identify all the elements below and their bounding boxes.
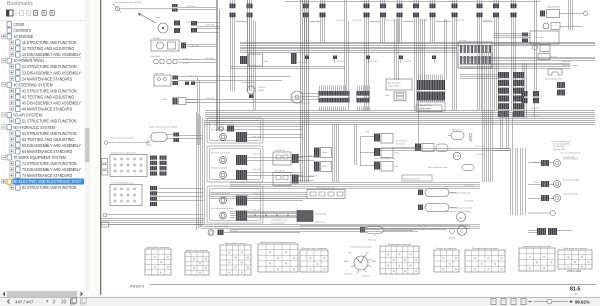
- svg-text:Item (4L-01): Item (4L-01): [275, 170, 285, 173]
- svg-text:Diode: Diode: [162, 99, 168, 101]
- wires engine sensors: [230, 193, 457, 232]
- table wiper switch connection: [220, 242, 251, 275]
- vertical bundle far right: [569, 0, 573, 30]
- diode D4: [240, 54, 268, 66]
- svg-text:Main pump solenoid valve: Main pump solenoid valve: [451, 193, 471, 195]
- svg-text:13 DISASSEMBLY AND ASSEMBLY: 13 DISASSEMBLY AND ASSEMBLY: [22, 52, 81, 57]
- top stack labels: [300, 1, 495, 3]
- wire turn-lamp to bus: [178, 7, 217, 9]
- status last-page arrow: [62, 300, 67, 304]
- wires washer to bus: [186, 45, 216, 47]
- svg-text:41 STRUCTURE AND FUNCTION: 41 STRUCTURE AND FUNCTION: [22, 89, 77, 94]
- svg-text:CN-104 R: CN-104 R: [258, 87, 266, 89]
- dimmer turn signal switch SW2: [110, 155, 147, 177]
- resistor R2: [538, 54, 558, 60]
- svg-text:Washer: Washer: [153, 38, 160, 40]
- relay K2: [366, 132, 393, 144]
- table forward reverse selector: [519, 245, 555, 271]
- svg-text:Push down: Push down: [344, 274, 352, 276]
- connector stack CN5: [364, 0, 370, 110]
- svg-text:23 DISASSEMBLY AND ASSEMBLY: 23 DISASSEMBLY AND ASSEMBLY: [22, 70, 81, 75]
- dimmer switch connector stack CN20: [150, 156, 157, 176]
- svg-text:0.85R 1.25B: 0.85R 1.25B: [252, 169, 261, 171]
- svg-text:0.85R 1.25B: 0.85R 1.25B: [464, 186, 473, 188]
- svg-text:mounting signal): mounting signal): [271, 221, 285, 224]
- svg-text:0.85R 1.25B: 0.85R 1.25B: [533, 162, 542, 164]
- lighter wire and plug: [560, 12, 588, 27]
- svg-text:Turn/tail lamp (LH): Turn/tail lamp (LH): [563, 193, 578, 196]
- svg-text:Warning buzzer: Warning buzzer: [299, 102, 311, 105]
- lamp R.H. head lamp (w/hi/lo): [220, 157, 227, 164]
- wide connector CN33: [417, 80, 445, 101]
- horn relay aux connectors: [185, 82, 195, 86]
- svg-text:21 STRUCTURE AND FUNCTION: 21 STRUCTURE AND FUNCTION: [22, 64, 77, 69]
- wires lamp R.H. front combination lamp: [247, 135, 303, 138]
- wide connector CN32: [357, 91, 370, 103]
- svg-text:64 MAINTENANCE STANDARD: 64 MAINTENANCE STANDARD: [22, 149, 72, 154]
- wires lamp L.H. head lamp (w/hi/lo): [247, 199, 303, 201]
- wires engine stop: [167, 135, 203, 139]
- svg-text:Lighting switch connection: Lighting switch connection: [146, 246, 169, 249]
- svg-text:(6.85) console: (6.85) console: [419, 109, 430, 111]
- svg-text:Auto decelerator: Auto decelerator: [420, 104, 433, 107]
- svg-text:Working lamp (light): Working lamp (light): [211, 166, 227, 169]
- svg-text:200F1-13B4: 200F1-13B4: [567, 269, 582, 273]
- svg-text:73 DISASSEMBLY AND ASSEMBLY: 73 DISASSEMBLY AND ASSEMBLY: [22, 167, 81, 172]
- connector stack CN11: [477, 0, 483, 110]
- svg-text:CN-10: CN-10: [410, 1, 415, 3]
- svg-text:Turn signal switch connection: Turn signal switch connection: [472, 247, 498, 250]
- table starting switch connection: [380, 243, 419, 274]
- svg-text:Foot switch: Foot switch: [299, 61, 308, 64]
- status prev-view icon: [71, 299, 76, 304]
- status dropdown arrow: [46, 301, 49, 303]
- resistor strip R1: [307, 187, 345, 198]
- connector stack CN3: [303, 0, 309, 43]
- rear lamp Turn/tail lamp (RH): [554, 160, 561, 167]
- wires lamp R.H. head lamp (w/hi/lo): [247, 158, 303, 161]
- wiring kit U7: [533, 45, 551, 52]
- svg-text:R.H. head lamp (w/hi/lo): R.H. head lamp (w/hi/lo): [211, 152, 231, 154]
- wire RH turn lamp: [234, 127, 303, 130]
- lamp Working lamp (light): [220, 172, 227, 179]
- svg-text:42 TESTING AND ADJUSTING: 42 TESTING AND ADJUSTING: [22, 95, 75, 100]
- to-valve labels: [374, 140, 408, 160]
- washer unit W1: [151, 38, 179, 51]
- bus left battery: [210, 193, 307, 199]
- lamp connector CN28b: [236, 211, 247, 221]
- connector stack CN37: [557, 82, 565, 96]
- lamp connector CN27: [236, 170, 247, 180]
- wire gauge labels: [186, 6, 542, 233]
- svg-text:Starting switch key position: Starting switch key position: [350, 246, 372, 249]
- svg-text:70 WORK EQUIPMENT SYSTEM: 70 WORK EQUIPMENT SYSTEM: [14, 155, 67, 160]
- svg-text:R.H. front combination lamp: R.H. front combination lamp: [211, 128, 233, 131]
- svg-text:1.25W 0.85B: 1.25W 0.85B: [352, 20, 361, 22]
- wires horn relay: [178, 77, 216, 83]
- svg-text:To: offer detent: To: offer detent: [396, 140, 408, 143]
- wiper connector CN15: [174, 21, 180, 34]
- turn hazard selector switch SW3: [110, 185, 142, 206]
- connector stack CN4: [320, 0, 326, 43]
- vertical bundle left2: [248, 0, 256, 110]
- RH turn lamp connector CN24: [227, 126, 234, 132]
- svg-text:0.85R 1.25B: 0.85R 1.25B: [308, 155, 317, 157]
- diode D3: [314, 162, 332, 172]
- horn H1: [154, 59, 164, 64]
- svg-text:L.H. front combination lamp: L.H. front combination lamp: [211, 207, 233, 210]
- wires right mid verticals: [523, 63, 537, 118]
- foot switch connector: [291, 53, 307, 64]
- svg-text:Horn (low): Horn (low): [151, 56, 161, 58]
- table turn signal switch connection: [465, 247, 505, 272]
- svg-text:Diode: Diode: [395, 153, 399, 155]
- fuse links: [102, 159, 108, 176]
- svg-text:HEAT: HEAT: [344, 260, 348, 263]
- svg-text:Horn switch (steering wheel): Horn switch (steering wheel): [110, 137, 134, 140]
- vertical bundle fusebox: [483, 52, 493, 182]
- horn H2: [167, 59, 177, 64]
- item relay box U1: [273, 149, 291, 165]
- diode D2: [314, 148, 332, 158]
- svg-text:Front windshield wiper relay: Front windshield wiper relay: [374, 157, 395, 160]
- connector stack CN10: [452, 0, 458, 110]
- junction dots: [254, 214, 289, 216]
- turn hazard connector stack CN22: [150, 186, 157, 206]
- svg-text:0.85R 1.25B: 0.85R 1.25B: [336, 20, 345, 22]
- svg-text:GN-104: GN-104: [258, 90, 264, 92]
- svg-text:Tail lamp (10W): Tail lamp (10W): [553, 146, 565, 148]
- svg-text:OFF: OFF: [348, 253, 351, 255]
- svg-text:24 MAINTENANCE STANDARD: 24 MAINTENANCE STANDARD: [22, 76, 72, 81]
- svg-text:Starting motor (with safety re: Starting motor (with safety relay): [446, 210, 471, 213]
- rear lamp connector CN38: [541, 160, 549, 166]
- lamp frame F3: [207, 186, 263, 223]
- vertical bundle mid3: [395, 19, 399, 80]
- svg-text:0.85B: 0.85B: [183, 63, 189, 65]
- LH turn signal lamp E6: [208, 230, 214, 236]
- connector stack CN43: [533, 91, 539, 103]
- cycle label: [271, 219, 287, 225]
- wires lamp L.H. front combination lamp: [247, 213, 303, 217]
- capsule relay: [436, 144, 448, 152]
- svg-text:Diode: Diode: [264, 61, 268, 63]
- svg-text:60 HYDRAULIC SYSTEM: 60 HYDRAULIC SYSTEM: [14, 125, 56, 130]
- svg-text:Forward/reverse selector switc: Forward/reverse selector switch: [523, 245, 551, 248]
- svg-text:Turn/hazard selector switch: Turn/hazard selector switch: [111, 181, 134, 184]
- svg-text:Back-up lamp (23W): Back-up lamp (23W): [563, 180, 580, 182]
- svg-text:0.85R 1.25B: 0.85R 1.25B: [475, 146, 484, 148]
- svg-text:20 POWER TRAIN: 20 POWER TRAIN: [14, 58, 45, 63]
- svg-text:1.25W 0.85B: 1.25W 0.85B: [475, 154, 484, 156]
- table lighting switch connection: [145, 246, 171, 275]
- svg-text:1.25W 0.85B: 1.25W 0.85B: [402, 61, 411, 63]
- wires diode: [186, 100, 198, 103]
- rear combination lamp labels: [551, 140, 570, 151]
- connector stack CN2: [247, 0, 253, 91]
- svg-text:Alternator: Alternator: [449, 237, 457, 240]
- radio U6: [522, 31, 559, 44]
- washer connector CN17: [181, 43, 186, 49]
- svg-text:71 STRUCTURE AND FUNCTION: 71 STRUCTURE AND FUNCTION: [22, 161, 77, 166]
- svg-text:1.25W 0.85B: 1.25W 0.85B: [204, 58, 213, 60]
- svg-text:1.25W 0.85B: 1.25W 0.85B: [205, 25, 214, 27]
- svg-text:(intermittent): (intermittent): [396, 142, 406, 145]
- item relay connector CN29: [292, 154, 299, 163]
- wire rear lamp 1: [528, 162, 554, 164]
- svg-text:81 STRUCTURE AND FUNCTION: 81 STRUCTURE AND FUNCTION: [22, 185, 77, 190]
- bus top horizontal: [240, 43, 595, 53]
- svg-text:Starting switch connection: Starting switch connection: [388, 243, 411, 246]
- connector stack CN12: [493, 0, 499, 110]
- svg-text:74 MAINTENANCE STANDARD: 74 MAINTENANCE STANDARD: [22, 173, 72, 178]
- svg-text:1.25W 0.85B: 1.25W 0.85B: [336, 61, 345, 63]
- vertical bundle stacks down: [501, 112, 513, 148]
- table working braking switch: [258, 241, 298, 272]
- svg-text:Rear lamp (sub switch): Rear lamp (sub switch): [545, 78, 563, 81]
- svg-text:CONTENTS: CONTENTS: [14, 28, 31, 33]
- auto decelerator console label box: [418, 102, 445, 111]
- LH turn lamp connector CN23: [218, 230, 224, 236]
- svg-text:Travel speed sw connection: Travel speed sw connection: [563, 247, 588, 250]
- connector CN36: [415, 144, 434, 152]
- svg-text:Accumulator pressure switch: Accumulator pressure switch: [451, 207, 473, 210]
- svg-text:Battery wire: Battery wire: [316, 221, 326, 224]
- svg-text:1.25W 0.85B: 1.25W 0.85B: [252, 153, 261, 155]
- wires to radio cluster: [494, 34, 540, 45]
- svg-text:Horn relay: Horn relay: [155, 73, 164, 75]
- svg-text:1.25W 0.85B: 1.25W 0.85B: [464, 201, 473, 203]
- auto decelerator label box: [386, 79, 412, 90]
- accumulator label box: [402, 175, 432, 181]
- bus label box: [416, 105, 442, 112]
- RH turn signal lamp E1: [218, 126, 223, 131]
- status layout icon 1: [491, 299, 496, 305]
- svg-text:Accumulator solenoid: Accumulator solenoid: [404, 177, 420, 180]
- wires relay column: [360, 137, 374, 166]
- svg-text:44 MAINTENANCE STANDARD: 44 MAINTENANCE STANDARD: [22, 107, 72, 112]
- svg-text:Grease sw connection: Grease sw connection: [437, 247, 457, 250]
- status zoom-out minus: [529, 301, 532, 303]
- connector CN14: [172, 4, 178, 12]
- fuse box F1: [458, 40, 492, 68]
- svg-text:62 TESTING AND ADJUSTING: 62 TESTING AND ADJUSTING: [22, 137, 75, 142]
- wires rear cluster: [528, 231, 572, 233]
- vertical bundle left: [217, 0, 220, 131]
- auto decelerator relay: [385, 92, 406, 101]
- svg-text:Engine stop protection (for si: Engine stop protection (for signal): [149, 126, 178, 129]
- speaker SP1: [543, 23, 560, 30]
- connector stack CN1: [230, 0, 236, 91]
- horn relay connector CN18: [173, 76, 179, 86]
- engine stop connector CN19: [174, 133, 180, 143]
- svg-text:(multi console): (multi console): [388, 85, 399, 88]
- bus center lower: [230, 183, 480, 189]
- wire rear lamp 2: [528, 184, 554, 186]
- connector stack column CN35: [513, 72, 524, 117]
- lamp connector CN25: [236, 132, 247, 142]
- svg-text:Heater switch connection: Heater switch connection: [186, 249, 208, 252]
- relay K4: [374, 148, 399, 158]
- relay column verticals: [333, 111, 511, 182]
- svg-text:1.25W 0.85B: 1.25W 0.85B: [418, 20, 427, 22]
- svg-text:Turn signal/hazard lamp (RH): Turn signal/hazard lamp (RH): [114, 1, 141, 4]
- oil pressure switch S1: [450, 229, 455, 234]
- wide connector CN31: [319, 91, 350, 103]
- vertical bundle mid4: [421, 19, 425, 80]
- wire LH turn lamp: [224, 232, 300, 234]
- wires wiper to bus: [197, 23, 219, 33]
- svg-text:a-1: a-1: [541, 96, 544, 98]
- relay K5: [374, 162, 399, 172]
- bus bottom center: [300, 226, 470, 229]
- pins wide connectors: [320, 75, 443, 112]
- status layout icon 4: [521, 299, 526, 305]
- status prev-page arrow: [8, 300, 10, 304]
- svg-text:Water temperature sensor: Water temperature sensor: [428, 166, 448, 169]
- svg-text:1.25W 0.85B: 1.25W 0.85B: [533, 182, 542, 184]
- table wiper deicer switch: [300, 247, 328, 272]
- wires horn to bus: [178, 60, 216, 63]
- wires fusebox feeders: [460, 75, 498, 79]
- lamp R.H. front combination lamp: [220, 134, 227, 141]
- svg-text:Fuse box: Fuse box: [459, 40, 466, 42]
- horn switch SW1: [104, 141, 150, 145]
- svg-text:COVER: COVER: [14, 22, 25, 27]
- svg-text:CN5: CN5: [366, 132, 369, 134]
- main pump solenoid V1: [418, 189, 471, 197]
- svg-text:START: START: [371, 260, 376, 263]
- svg-text:1.25W 0.85B: 1.25W 0.85B: [186, 6, 195, 8]
- rear connector cluster CN41: [537, 228, 557, 235]
- vertical bundle mid5: [445, 19, 447, 80]
- rear lamp connector CN39: [541, 181, 549, 187]
- status next-page arrow: [53, 300, 55, 304]
- wire brake switch: [107, 215, 204, 225]
- svg-text:Turn signal flasher: Turn signal flasher: [241, 81, 255, 84]
- svg-text:0.85R 1.25B: 0.85R 1.25B: [418, 226, 427, 228]
- svg-text:Fuel return: Fuel return: [362, 275, 370, 278]
- svg-text:Cigarette lighter: Cigarette lighter: [547, 6, 561, 9]
- table heater switch connection: [185, 249, 209, 275]
- wires battery area: [230, 212, 297, 218]
- accumulator solenoid V2: [418, 204, 473, 212]
- fuel gauge G1: [291, 91, 303, 103]
- turn signal hazard lamp RH: [113, 4, 172, 13]
- svg-text:0.85R 1.25B: 0.85R 1.25B: [455, 20, 464, 22]
- alternator G2: [457, 226, 467, 236]
- top rail wire: [285, 1, 541, 3]
- svg-text:1.25W 0.85B: 1.25W 0.85B: [530, 116, 539, 118]
- diode D1: [162, 98, 186, 105]
- bus right lower: [460, 64, 570, 69]
- bus right upper: [460, 58, 595, 61]
- lamp connector CN28: [236, 196, 247, 206]
- svg-text:Resistor: Resistor: [551, 56, 558, 59]
- fuel level sensor B1: [360, 226, 384, 234]
- table grease switch connection: [434, 247, 459, 272]
- rear lamp small E10: [528, 210, 556, 215]
- svg-text:Tail lamp (10W): Tail lamp (10W): [563, 157, 575, 159]
- svg-text:Diode: Diode: [385, 95, 389, 97]
- rear lamp Back-up lamp (23W): [554, 181, 561, 188]
- wiper motor M1: [158, 23, 168, 33]
- svg-text:80 ELECTRIC AND ELECTRONIC SYS: 80 ELECTRIC AND ELECTRONIC SYST: [14, 179, 82, 184]
- horn relay K1: [154, 73, 171, 86]
- wires lamp Working lamp (light): [247, 173, 303, 176]
- bus middle horizontal: [205, 111, 595, 125]
- connector stack CN13: [511, 0, 517, 110]
- stub connectors under bus: [305, 56, 436, 64]
- washer tank capsule: [451, 129, 472, 141]
- cigarette lighter U5: [540, 10, 560, 18]
- status layout icon 2: [501, 299, 506, 305]
- svg-text:Dimmer and turn signal switch: Dimmer and turn signal switch: [111, 151, 136, 154]
- svg-text:447 / 447: 447 / 447: [15, 299, 34, 304]
- bus middle right: [380, 149, 510, 151]
- horn wire labels: [183, 59, 189, 65]
- svg-text:Turn signal lamp (23W): Turn signal lamp (23W): [553, 144, 570, 146]
- starting motor M2: [457, 213, 466, 222]
- svg-text:0.85R 1.25B: 0.85R 1.25B: [368, 61, 377, 63]
- speaker bracket: [548, 69, 562, 75]
- svg-text:0.85R 1.25B: 0.85R 1.25B: [252, 136, 261, 138]
- svg-text:1.25W 0.85B: 1.25W 0.85B: [205, 98, 214, 100]
- svg-text:(W)casher switch connection: (W)casher switch connection: [301, 247, 327, 250]
- svg-text:61 STRUCTURE AND FUNCTION: 61 STRUCTURE AND FUNCTION: [22, 131, 77, 136]
- fuel tank label: [368, 239, 376, 242]
- status next-view icon: [81, 299, 86, 304]
- vertical bundle center: [301, 0, 309, 182]
- LH rear combination label: [560, 152, 580, 160]
- svg-text:L.H. rear combination lamp: L.H. rear combination lamp: [560, 152, 580, 155]
- svg-text:1.25W 0.85B: 1.25W 0.85B: [252, 193, 261, 195]
- svg-text:10 ENGINE: 10 ENGINE: [14, 34, 34, 39]
- wire loop bottom bundle: [197, 225, 481, 229]
- svg-text:0.85R 1.25B: 0.85R 1.25B: [190, 45, 199, 47]
- bus wrap-down corner: [197, 112, 205, 230]
- connector stack CN9: [430, 0, 436, 43]
- svg-text:40 STEERING SYSTEM: 40 STEERING SYSTEM: [14, 82, 53, 87]
- svg-text:Fuel tank: Fuel tank: [368, 239, 376, 242]
- vertical bundle right2: [535, 0, 537, 63]
- svg-text:1.25W 0.85B: 1.25W 0.85B: [228, 230, 237, 232]
- page frame bottom line: [150, 284, 596, 286]
- svg-text:Wiring hose: Wiring hose: [452, 129, 461, 132]
- item relay box U2: [273, 170, 291, 186]
- wires lower left to loops: [101, 219, 204, 225]
- room lamp labels: [562, 61, 579, 67]
- svg-text:Working and braking switch con: Working and braking switch connection: [261, 241, 296, 244]
- wiper arm arrow: [138, 13, 156, 23]
- lamp frame F1: [207, 118, 263, 143]
- svg-text:Auto decelerator: Auto decelerator: [388, 82, 401, 85]
- svg-text:Battery relay: Battery relay: [316, 213, 327, 216]
- svg-text:1.25W 0.85B: 1.25W 0.85B: [482, 20, 491, 22]
- connector stack column CN34: [498, 72, 509, 117]
- svg-text:50 AIR SYSTEM: 50 AIR SYSTEM: [14, 113, 43, 118]
- svg-text:CN-10: CN-10: [490, 1, 495, 3]
- rear lamp connector CN40: [541, 195, 549, 201]
- starting switch key position diagram: [344, 246, 376, 278]
- flasher wire labels: [258, 87, 266, 92]
- lamp frame F2: [207, 146, 263, 182]
- svg-text:1.25W 0.85B: 1.25W 0.85B: [308, 175, 317, 177]
- wiper connector CN16: [191, 21, 197, 33]
- status layout icon 3: [511, 299, 516, 305]
- svg-text:Diode: Diode: [322, 166, 327, 168]
- svg-text:Cycle (Battery relay: Cycle (Battery relay: [271, 219, 287, 222]
